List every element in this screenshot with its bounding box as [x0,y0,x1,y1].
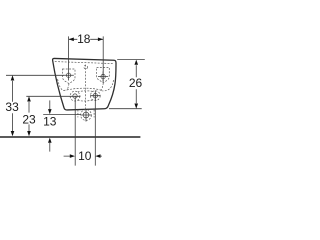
svg-text:18: 18 [77,32,91,46]
svg-text:33: 33 [5,100,19,114]
svg-text:13: 13 [43,115,57,129]
svg-text:10: 10 [78,149,92,163]
svg-text:23: 23 [22,112,36,126]
svg-text:26: 26 [129,76,143,90]
